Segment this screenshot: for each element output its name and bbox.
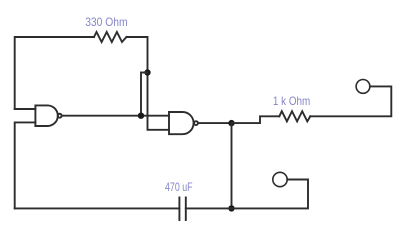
wire: R1 right to feedback vertical, down to U2 lower input (127, 37, 170, 130)
wire: bottom rail right of capacitor to terminal riser (186, 180, 308, 209)
node: bottom junction dot (228, 205, 234, 211)
svg-text:470 uF: 470 uF (165, 180, 193, 194)
wire: R2 right, up to terminal J1 (310, 86, 391, 116)
svg-text:330 Ohm: 330 Ohm (85, 15, 127, 29)
node: output junction dot (228, 120, 234, 126)
nand gate U2 body (169, 112, 194, 134)
wire: output node jog up to R2 (232, 116, 280, 123)
wire: U1 output to U2 upper input (62, 115, 169, 117)
wire: top-left corner, feedback wire from left rail to R1 (15, 37, 94, 109)
resistor R1 zigzag (94, 32, 127, 42)
wire: U2 output to output node (198, 122, 232, 124)
wire: bottom rail left of capacitor (15, 207, 180, 209)
nand gate U2 output bubble (194, 121, 198, 125)
wire: U1 upper input from left rail (15, 108, 36, 110)
wire: U1 lower input to left rail down to bottom rail (15, 122, 36, 208)
capacitor C1 plates (179, 198, 185, 221)
terminal J2 circle (273, 172, 287, 186)
terminal J1 circle (356, 80, 370, 94)
wire: output node down to bottom node (231, 123, 233, 208)
node: junction dot on U1 output net (138, 113, 144, 119)
nand gate U1 body (35, 105, 57, 126)
nand gate U1 output bubble (58, 114, 62, 118)
resistor R2 zigzag (279, 111, 310, 121)
svg-text:1 k Ohm: 1 k Ohm (273, 94, 310, 108)
wire: branch from feedback node down to U1 output net (141, 73, 148, 116)
node: junction dot on feedback vertical (144, 69, 150, 75)
